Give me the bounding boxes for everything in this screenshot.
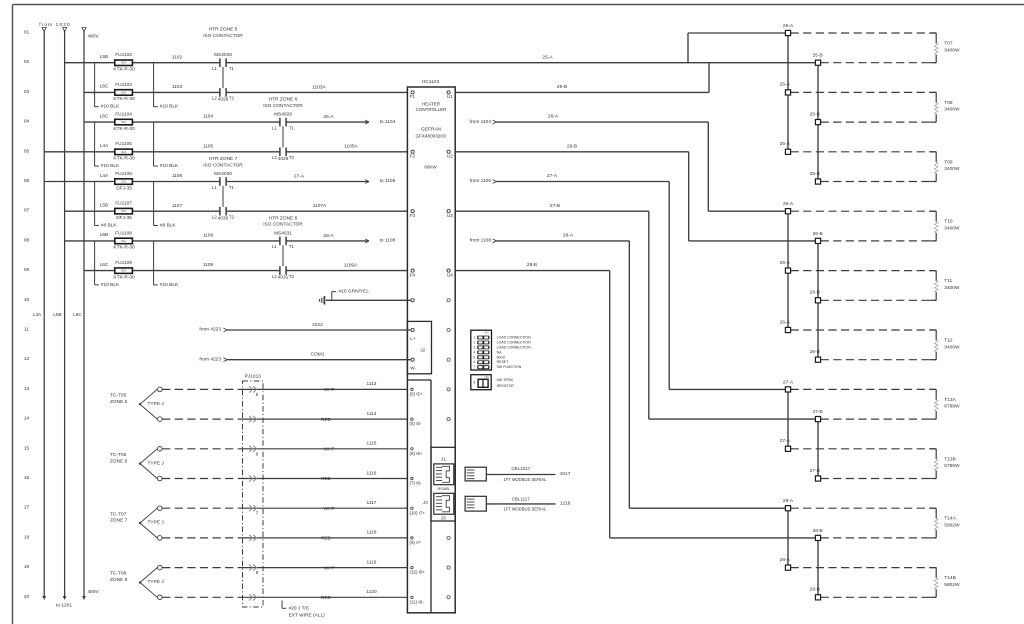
wire gauge callout #10 BLK right (rows 02/03) bbox=[154, 63, 179, 110]
svg-text:1FT MODBUS SERIAL: 1FT MODBUS SERIAL bbox=[503, 506, 547, 511]
svg-text:RED: RED bbox=[321, 476, 332, 481]
svg-text:T1: T1 bbox=[229, 185, 235, 190]
wire from 1108 feed (row 08) routed down to distribution bbox=[470, 238, 788, 509]
svg-text:02: 02 bbox=[24, 59, 30, 65]
svg-text:28-A: 28-A bbox=[780, 557, 791, 563]
svg-text:J3: J3 bbox=[423, 500, 428, 505]
svg-text:1119: 1119 bbox=[367, 559, 377, 565]
svg-text:1105: 1105 bbox=[203, 143, 214, 149]
controller pin F3 (left, row 07) and pin U3 (right) bbox=[410, 210, 454, 218]
svg-text:FU1104: FU1104 bbox=[115, 112, 132, 118]
svg-text:U3: U3 bbox=[447, 213, 453, 218]
heater element T08 3400W bbox=[930, 92, 960, 122]
node 28-B terminal 1 bbox=[813, 528, 937, 541]
svg-text:#10 BLK: #10 BLK bbox=[160, 104, 179, 110]
wire row 04 net 1104 from bus L6C through fuse FU1104 and contact bbox=[84, 120, 369, 124]
ground symbol (chassis) bbox=[320, 296, 325, 304]
thermocouple terminal pin ticks bbox=[411, 388, 413, 598]
svg-text:3400W: 3400W bbox=[944, 166, 960, 172]
svg-text:T2: T2 bbox=[229, 96, 235, 101]
svg-text:ZONE 6: ZONE 6 bbox=[110, 458, 128, 464]
svg-text:U1: U1 bbox=[447, 94, 453, 99]
node 26-A terminal 1 bbox=[783, 201, 936, 214]
svg-text:KTK-R-30: KTK-R-30 bbox=[113, 96, 135, 102]
controller pin F2 (left, row 05) and pin U2 (right) bbox=[410, 150, 454, 158]
svg-text:GEFRAN: GEFRAN bbox=[421, 127, 442, 133]
node 25-B terminal 2 bbox=[810, 111, 937, 124]
svg-text:14: 14 bbox=[24, 416, 30, 422]
heater element T13B 6789W bbox=[930, 449, 960, 479]
svg-text:01: 01 bbox=[24, 30, 30, 36]
svg-text:30A: 30A bbox=[121, 269, 126, 273]
svg-text:30A: 30A bbox=[121, 209, 126, 213]
svg-text:L6C: L6C bbox=[100, 262, 109, 268]
thermocouple TC-T06 ZONE 6 TYPE J bbox=[110, 447, 164, 481]
svg-text:EXT WIRE (ALL): EXT WIRE (ALL) bbox=[289, 613, 326, 619]
svg-text:LOAD CONNECTION: LOAD CONNECTION bbox=[497, 336, 532, 340]
svg-text:27-A: 27-A bbox=[783, 379, 794, 385]
wire COM1 from 4223 to J2 W- (row 12) bbox=[199, 352, 414, 363]
wire gauge callout #10 GRN/YEL bbox=[332, 289, 370, 301]
svg-text:1113: 1113 bbox=[367, 381, 377, 387]
wire row 07 net 1107 from bus L5B through fuse FU1107 and contact bbox=[65, 210, 408, 212]
svg-text:25-A: 25-A bbox=[542, 54, 553, 60]
svg-text:from 4223: from 4223 bbox=[199, 356, 221, 362]
contactor MS4028 HTR ZONE 5 ISO CONTACTOR (contacts L1/T1 row 02, L2/T2 row 03) bbox=[203, 27, 243, 103]
svg-text:#10 BLK: #10 BLK bbox=[101, 104, 120, 110]
svg-text:MS4030: MS4030 bbox=[214, 171, 232, 177]
svg-text:L4A: L4A bbox=[33, 312, 42, 318]
svg-text:3400W: 3400W bbox=[944, 107, 960, 113]
node 28-B terminal 2 bbox=[810, 587, 937, 600]
svg-text:6789W: 6789W bbox=[944, 463, 960, 469]
thermocouple wire WHT 1119 row 19 bbox=[162, 559, 407, 575]
svg-text:ZONE 7: ZONE 7 bbox=[110, 518, 128, 524]
svg-text:T14A: T14A bbox=[944, 516, 956, 522]
node 27-B terminal 1 bbox=[813, 409, 937, 422]
wire row 03 net 1103 from bus L6C through fuse FU1103 and contact bbox=[84, 91, 407, 93]
svg-text:25-B: 25-B bbox=[810, 111, 820, 117]
distribution bus 27-A vertical bbox=[787, 389, 789, 448]
node 26-A terminal 2 bbox=[780, 260, 937, 273]
svg-text:27-A: 27-A bbox=[780, 438, 791, 444]
svg-text:TC-T08: TC-T08 bbox=[110, 571, 127, 577]
svg-text:(12) I8+: (12) I8+ bbox=[410, 570, 426, 575]
svg-text:28-B: 28-B bbox=[813, 528, 823, 534]
svg-text:T2: T2 bbox=[289, 274, 295, 279]
svg-text:FU1107: FU1107 bbox=[115, 201, 132, 207]
svg-text:T1: T1 bbox=[289, 125, 295, 130]
contactor MS4030 HTR ZONE 7 ISO CONTACTOR (contacts L1/T1 row 06, L2/T2 row 07) bbox=[203, 156, 243, 221]
svg-text:4: 4 bbox=[474, 350, 476, 354]
svg-text:1216: 1216 bbox=[560, 501, 571, 507]
svg-text:1017: 1017 bbox=[560, 471, 571, 477]
wire 28-B from controller pin U (row 09) routed to distribution bbox=[455, 262, 818, 538]
svg-text:28-A: 28-A bbox=[323, 233, 334, 239]
wire row 08 net 1108 from bus L5B through fuse FU1108 and contact bbox=[65, 239, 369, 243]
thermocouple wire WHT 1113 row 13 bbox=[162, 381, 407, 397]
svg-text:30A: 30A bbox=[121, 61, 126, 65]
svg-text:27-A: 27-A bbox=[294, 173, 305, 179]
svg-text:L6C: L6C bbox=[100, 113, 109, 119]
svg-text:03: 03 bbox=[24, 89, 30, 95]
svg-text:(10) I7+: (10) I7+ bbox=[410, 510, 426, 515]
svg-text:25-A: 25-A bbox=[783, 23, 794, 29]
node 26-A terminal 3 bbox=[780, 319, 937, 332]
svg-text:60HZ: 60HZ bbox=[497, 355, 506, 359]
thermocouple wire RED 1120 row 20 bbox=[162, 589, 407, 600]
cable CBL1117 1FT MODBUS SERIAL plug bbox=[465, 496, 571, 511]
node 27-B terminal 2 bbox=[810, 468, 937, 481]
svg-text:L1: L1 bbox=[272, 125, 277, 130]
svg-text:FU1102: FU1102 bbox=[115, 52, 132, 58]
svg-text:5: 5 bbox=[256, 392, 259, 397]
svg-text:26-B: 26-B bbox=[810, 290, 820, 296]
svg-text:T12: T12 bbox=[944, 338, 953, 344]
heater element T12 3400W bbox=[930, 330, 960, 360]
svg-text:4029: 4029 bbox=[278, 156, 289, 162]
svg-text:J3: J3 bbox=[441, 516, 446, 521]
thermocouple wire RED 1116 row 16 bbox=[162, 470, 407, 481]
svg-text:12: 12 bbox=[24, 356, 30, 362]
svg-text:L6C: L6C bbox=[73, 312, 82, 318]
svg-text:RED: RED bbox=[321, 417, 332, 422]
wire gauge callout #8 BLK left (rows 06/07) bbox=[95, 182, 118, 229]
svg-text:6: 6 bbox=[256, 451, 259, 456]
svg-text:MS4031: MS4031 bbox=[274, 230, 292, 236]
heater element T14B 5802W bbox=[930, 568, 960, 598]
svg-text:L1: L1 bbox=[212, 66, 217, 71]
connector PJ1013 (dashed boundary) bbox=[243, 374, 264, 607]
svg-text:13: 13 bbox=[24, 386, 30, 392]
svg-text:L4A: L4A bbox=[100, 143, 109, 149]
svg-text:4031: 4031 bbox=[278, 275, 289, 281]
svg-text:27-B: 27-B bbox=[813, 409, 823, 415]
svg-text:26-A: 26-A bbox=[780, 260, 791, 266]
fuse FU1105 KTK-R-30 30A bbox=[100, 141, 135, 161]
svg-text:L1: L1 bbox=[212, 185, 217, 190]
svg-text:1106: 1106 bbox=[172, 173, 183, 179]
thermocouple TC-T05 ZONE 5 TYPE J bbox=[110, 387, 164, 421]
svg-text:RS485: RS485 bbox=[437, 487, 449, 491]
svg-text:L5B: L5B bbox=[100, 54, 109, 60]
svg-text:F1: F1 bbox=[410, 94, 416, 99]
svg-text:KTK-R-30: KTK-R-30 bbox=[113, 126, 135, 132]
thermocouple wire RED 1114 row 14 bbox=[162, 411, 407, 422]
wire gauge callout #10 BLK right (rows 08/09) bbox=[154, 241, 179, 288]
svg-text:7: 7 bbox=[256, 511, 259, 516]
svg-text:1116: 1116 bbox=[367, 470, 377, 476]
RJ45 jack J1 (RS485) bbox=[434, 464, 454, 491]
svg-text:3400W: 3400W bbox=[944, 344, 960, 350]
svg-text:1105A: 1105A bbox=[344, 144, 358, 150]
svg-text:U2: U2 bbox=[447, 154, 453, 159]
fuse FU1106 DFJ-35 30A bbox=[100, 171, 133, 191]
controller inner labels bbox=[416, 101, 448, 169]
svg-text:T2: T2 bbox=[229, 215, 235, 220]
svg-text:TYPE J: TYPE J bbox=[148, 520, 165, 526]
svg-text:LOAD CONNECTION: LOAD CONNECTION bbox=[497, 340, 532, 344]
svg-text:30A: 30A bbox=[121, 90, 126, 94]
svg-text:L2: L2 bbox=[272, 274, 277, 279]
wire from 1104 feed (row 04) routed down to distribution bbox=[470, 119, 788, 211]
node 26-B terminal 1 bbox=[813, 231, 937, 244]
svg-text:#10 BLK: #10 BLK bbox=[101, 282, 120, 288]
distribution bus 26-A vertical bbox=[787, 211, 789, 330]
svg-text:06: 06 bbox=[24, 178, 30, 184]
svg-text:ISO CONTACTOR: ISO CONTACTOR bbox=[263, 222, 303, 228]
svg-text:485 TERM: 485 TERM bbox=[497, 378, 513, 382]
svg-text:L2: L2 bbox=[272, 155, 277, 160]
svg-text:4222: 4222 bbox=[312, 322, 323, 328]
svg-text:1103: 1103 bbox=[172, 84, 183, 90]
svg-text:26-B: 26-B bbox=[813, 231, 823, 237]
svg-text:(5) I5-: (5) I5- bbox=[410, 421, 423, 426]
svg-text:L5B: L5B bbox=[100, 203, 109, 209]
svg-text:26-A: 26-A bbox=[548, 114, 559, 120]
controller spare pin circles right edge bbox=[447, 299, 450, 599]
thermocouple wire RED 1118 row 18 bbox=[162, 530, 407, 541]
svg-text:#10 BLK: #10 BLK bbox=[160, 163, 179, 169]
svg-text:08: 08 bbox=[24, 237, 30, 243]
svg-text:CBL1117: CBL1117 bbox=[512, 497, 531, 502]
RJ45 jack J3 bbox=[434, 493, 454, 520]
svg-text:1118: 1118 bbox=[367, 530, 377, 536]
svg-text:09: 09 bbox=[24, 267, 30, 273]
svg-text:26-A: 26-A bbox=[783, 201, 794, 207]
svg-text:T09: T09 bbox=[944, 159, 953, 165]
svg-text:1104: 1104 bbox=[203, 114, 214, 120]
connector J2 on controller bbox=[407, 321, 431, 373]
node 25-B terminal 1 bbox=[813, 53, 937, 66]
fuse FU1103 KTK-R-30 30A bbox=[100, 82, 135, 102]
svg-text:WHT: WHT bbox=[324, 447, 335, 452]
svg-text:2: 2 bbox=[474, 340, 476, 344]
svg-text:30A: 30A bbox=[121, 239, 126, 243]
svg-text:25-A: 25-A bbox=[780, 82, 791, 88]
svg-text:L4A: L4A bbox=[100, 173, 109, 179]
node 27-A terminal 1 bbox=[783, 379, 936, 392]
svg-text:to 1201: to 1201 bbox=[56, 603, 72, 609]
svg-text:T13A: T13A bbox=[944, 397, 956, 403]
svg-text:U4: U4 bbox=[447, 272, 453, 277]
svg-text:NA: NA bbox=[497, 350, 503, 354]
heater controller U1 HC1103 outline bbox=[407, 79, 455, 613]
svg-text:26-B: 26-B bbox=[810, 349, 820, 355]
svg-text:(7) I6-: (7) I6- bbox=[410, 481, 423, 486]
svg-text:WHT: WHT bbox=[324, 565, 335, 570]
svg-text:1107A: 1107A bbox=[313, 203, 327, 209]
svg-text:COM1: COM1 bbox=[311, 352, 325, 358]
node 25-A terminal 1 bbox=[783, 23, 936, 36]
svg-text:T10: T10 bbox=[944, 219, 953, 225]
svg-text:25-B: 25-B bbox=[810, 171, 820, 177]
svg-text:TC-T06: TC-T06 bbox=[110, 452, 127, 458]
svg-text:#10 GRN/YEL: #10 GRN/YEL bbox=[339, 289, 370, 295]
wire row 02 net 1102 from bus L5B through fuse FU1102 and contact bbox=[65, 62, 818, 64]
distribution bus 26-B vertical bbox=[817, 241, 819, 360]
DIP switch bank SW1-7 legend bbox=[471, 330, 531, 370]
svg-text:#8 BLK: #8 BLK bbox=[160, 222, 177, 228]
distribution bus 28-B vertical bbox=[817, 538, 819, 597]
svg-text:3: 3 bbox=[474, 345, 476, 349]
ground wire row 10 #10 GRN/YEL to controller bbox=[326, 299, 414, 302]
svg-text:TYPE J: TYPE J bbox=[148, 401, 165, 407]
svg-text:1FT MODBUS SERIAL: 1FT MODBUS SERIAL bbox=[503, 477, 547, 482]
heater element T11 3400W bbox=[930, 271, 960, 301]
svg-text:5802W: 5802W bbox=[944, 523, 960, 529]
svg-text:TYPE J: TYPE J bbox=[148, 460, 165, 466]
svg-text:T11: T11 bbox=[944, 278, 952, 284]
svg-text:3400W: 3400W bbox=[944, 285, 960, 291]
thermocouple TC-T08 ZONE 8 TYPE J bbox=[110, 565, 164, 599]
svg-text:480V: 480V bbox=[88, 589, 100, 595]
wire 25-B from controller pin U (row 03) routed to distribution bbox=[455, 63, 709, 93]
svg-text:6789W: 6789W bbox=[944, 404, 960, 410]
power bus L5B (480V phase B) vertical bbox=[63, 28, 67, 601]
svg-text:28-B: 28-B bbox=[527, 262, 537, 268]
wire 25-A branch up to distribution bbox=[542, 33, 788, 63]
node 26-B terminal 3 bbox=[810, 349, 937, 362]
svg-text:20: 20 bbox=[24, 594, 30, 600]
svg-text:from 4223: from 4223 bbox=[199, 327, 221, 333]
svg-text:L5B: L5B bbox=[53, 312, 62, 318]
wire row 05 net 1105 from bus L4A through fuse FU1105 and contact bbox=[44, 151, 407, 153]
svg-text:RED: RED bbox=[321, 595, 332, 600]
svg-text:(6) I5+: (6) I5+ bbox=[410, 392, 424, 397]
node 27-A terminal 2 bbox=[780, 438, 937, 451]
DIP switch SW8 485 TERM RESISTOR legend bbox=[471, 375, 515, 390]
svg-text:J1: J1 bbox=[441, 457, 446, 462]
fuse FU1109 KTK-R-30 30A bbox=[100, 260, 135, 280]
contactor MS4031 HTR ZONE 8 ISO CONTACTOR (contacts L1/T1 row 08, L2/T2 row 09) bbox=[263, 215, 303, 280]
svg-text:L2: L2 bbox=[212, 215, 217, 220]
svg-text:#10 BLK: #10 BLK bbox=[160, 282, 179, 288]
svg-text:to 1104: to 1104 bbox=[380, 119, 396, 125]
svg-text:5: 5 bbox=[474, 355, 476, 359]
svg-text:F3: F3 bbox=[410, 213, 416, 218]
svg-text:HTR ZONE 6: HTR ZONE 6 bbox=[269, 97, 298, 103]
wire 4222 from 4223 to J2 L+ (row 11) bbox=[199, 322, 414, 333]
svg-text:F4: F4 bbox=[410, 272, 416, 277]
svg-text:HTR ZONE 8: HTR ZONE 8 bbox=[269, 215, 298, 221]
svg-text:ISO CONTACTOR: ISO CONTACTOR bbox=[203, 33, 243, 39]
svg-text:TC-T05: TC-T05 bbox=[110, 392, 127, 398]
svg-text:from 1020: from 1020 bbox=[39, 22, 71, 28]
svg-text:HTR ZONE 5: HTR ZONE 5 bbox=[209, 27, 238, 33]
svg-text:15: 15 bbox=[24, 445, 30, 451]
wire from 1106 feed (row 06) routed down to distribution bbox=[470, 178, 788, 389]
svg-text:SW FUNCTION: SW FUNCTION bbox=[497, 365, 522, 369]
svg-text:28-A: 28-A bbox=[783, 498, 794, 504]
svg-text:L2: L2 bbox=[212, 96, 217, 101]
svg-text:T2: T2 bbox=[289, 155, 295, 160]
svg-text:1108: 1108 bbox=[203, 233, 214, 239]
svg-text:RESET: RESET bbox=[497, 360, 510, 364]
svg-text:from 1106: from 1106 bbox=[470, 178, 492, 184]
svg-text:KTK-R-30: KTK-R-30 bbox=[113, 67, 135, 73]
distribution bus 28-A vertical bbox=[787, 508, 789, 567]
svg-text:(9) I7-: (9) I7- bbox=[410, 540, 423, 545]
distribution bus 25-B vertical bbox=[817, 63, 819, 182]
heater element T07 3400W bbox=[930, 33, 960, 63]
svg-text:T08: T08 bbox=[944, 100, 953, 106]
svg-text:27-B: 27-B bbox=[550, 203, 560, 209]
svg-text:30A: 30A bbox=[121, 180, 126, 184]
svg-text:T1: T1 bbox=[289, 244, 295, 249]
wire gauge callout #10 BLK right (rows 04/05) bbox=[154, 122, 179, 169]
svg-text:30A: 30A bbox=[121, 120, 126, 124]
heater element T14A 5802W bbox=[930, 508, 960, 538]
distribution bus 27-B vertical bbox=[817, 419, 819, 478]
svg-text:MS4028: MS4028 bbox=[214, 52, 232, 58]
heater element T10 3400W bbox=[930, 211, 960, 241]
svg-text:T14B: T14B bbox=[944, 575, 955, 581]
svg-text:LOAD CONNECTION: LOAD CONNECTION bbox=[497, 345, 532, 349]
bus phase labels L4A L5B L6C bbox=[33, 312, 83, 318]
svg-text:CBL1017: CBL1017 bbox=[511, 466, 530, 471]
fuse FU1102 KTK-R-30 30A bbox=[100, 52, 135, 72]
svg-text:RESISTOR: RESISTOR bbox=[497, 384, 515, 388]
svg-text:3400W: 3400W bbox=[944, 226, 960, 232]
node 25-A terminal 2 bbox=[780, 82, 937, 95]
svg-text:F2: F2 bbox=[410, 154, 416, 159]
svg-text:4028: 4028 bbox=[218, 97, 229, 103]
svg-text:10: 10 bbox=[24, 297, 30, 303]
svg-text:FU1108: FU1108 bbox=[115, 230, 132, 236]
wire 26-B from controller pin U (row 05) routed to distribution bbox=[455, 143, 818, 241]
thermocouple wire WHT 1115 row 15 bbox=[162, 441, 407, 457]
svg-text:4030: 4030 bbox=[218, 215, 229, 221]
svg-text:1109: 1109 bbox=[203, 262, 214, 268]
svg-text:1: 1 bbox=[474, 336, 476, 340]
controller terminal strip sub-box bbox=[407, 380, 431, 613]
svg-text:FU1109: FU1109 bbox=[115, 260, 132, 266]
heater element T13A 6789W bbox=[930, 389, 960, 419]
svg-text:FU1105: FU1105 bbox=[115, 141, 132, 147]
svg-text:25-B: 25-B bbox=[557, 84, 567, 90]
svg-text:28-B: 28-B bbox=[810, 587, 820, 593]
svg-text:L+: L+ bbox=[410, 336, 416, 341]
svg-text:16: 16 bbox=[24, 475, 30, 481]
wire 27-B from controller pin U (row 07) routed to distribution bbox=[455, 203, 818, 419]
cable CBL1017 1FT MODBUS SERIAL plug bbox=[465, 466, 571, 482]
svg-text:from 1108: from 1108 bbox=[470, 238, 492, 244]
svg-text:ISO CONTACTOR: ISO CONTACTOR bbox=[263, 103, 303, 109]
svg-text:28-A: 28-A bbox=[563, 233, 574, 239]
svg-text:KTK-R-30: KTK-R-30 bbox=[113, 156, 135, 162]
svg-text:to 1106: to 1106 bbox=[380, 178, 396, 184]
svg-text:1107: 1107 bbox=[172, 203, 183, 209]
svg-text:7: 7 bbox=[474, 365, 476, 369]
svg-text:5802W: 5802W bbox=[944, 582, 960, 588]
wire gauge callout #10 BLK left (rows 04/05) bbox=[95, 122, 120, 169]
svg-text:TC-T07: TC-T07 bbox=[110, 511, 127, 517]
node 26-B terminal 2 bbox=[810, 290, 937, 303]
svg-text:30A: 30A bbox=[121, 150, 126, 154]
svg-text:W-: W- bbox=[410, 365, 416, 370]
svg-text:T13B: T13B bbox=[944, 456, 955, 462]
svg-text:MS4029: MS4029 bbox=[274, 112, 292, 118]
svg-text:1109A: 1109A bbox=[344, 263, 358, 269]
svg-text:#20 J T/C: #20 J T/C bbox=[289, 606, 310, 612]
controller pin F1 (left, row 03) and pin U1 (right) bbox=[410, 91, 454, 99]
svg-text:1117: 1117 bbox=[367, 500, 377, 506]
svg-text:HEATER: HEATER bbox=[422, 101, 441, 106]
svg-text:ZONE 5: ZONE 5 bbox=[110, 399, 128, 405]
svg-text:RED: RED bbox=[321, 536, 332, 541]
connector block J1/J3 on controller bbox=[431, 447, 455, 521]
